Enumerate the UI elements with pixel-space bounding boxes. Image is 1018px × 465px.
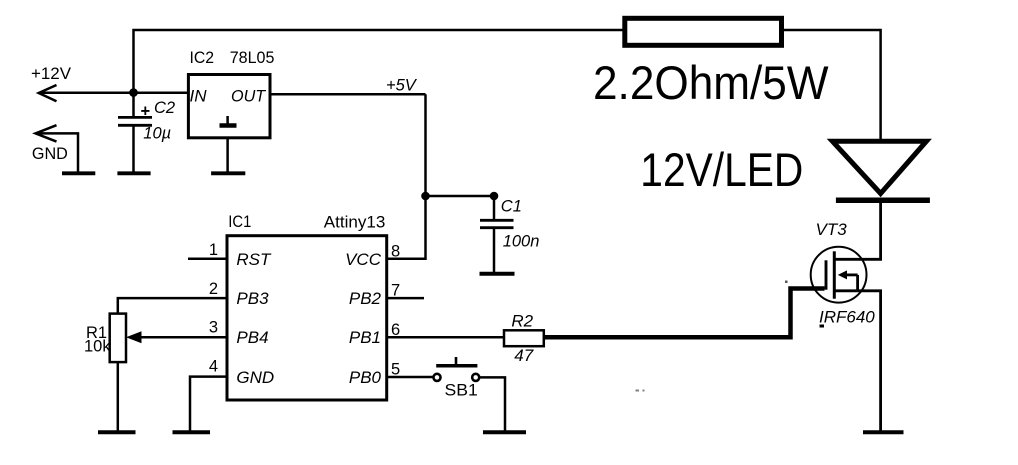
label GND pin [236, 368, 274, 387]
wire +5V down to VCC junction [424, 94, 427, 196]
svg-text:GND: GND [32, 145, 68, 163]
ground for C2 [117, 171, 150, 175]
label 12V/LED [640, 143, 803, 196]
node junction dot C1 [490, 192, 499, 201]
label 78L05 [230, 49, 275, 67]
resistor R2 body [504, 330, 544, 346]
svg-text:R2: R2 [511, 312, 533, 331]
label R1 [86, 324, 107, 342]
label C2 plus polarity [141, 102, 151, 120]
label 10u value [143, 125, 171, 143]
transistor VT3 source arrow [838, 270, 858, 290]
regulator IC2 body [188, 75, 270, 138]
label R2 [511, 312, 533, 331]
svg-text:2.2Ohm/5W: 2.2Ohm/5W [593, 56, 829, 109]
label Attiny13 [324, 213, 386, 231]
wire pin 7 PB2 stub [387, 297, 424, 300]
wire pin 3 PB4 to R1 wiper [138, 336, 227, 339]
wire pin 2 PB3 to R1 top [118, 298, 227, 314]
ground for SB1 [483, 430, 526, 434]
ground for IC2 [211, 171, 245, 175]
svg-text:8: 8 [391, 243, 400, 261]
label 100n value [503, 233, 540, 251]
transistor VT3 channel bar [833, 251, 836, 298]
svg-text:3: 3 [209, 319, 218, 337]
ground for GND arrow [62, 171, 95, 175]
R1 wiper arrowhead [126, 331, 142, 343]
label C2 [154, 99, 175, 117]
wire pin 6 PB1 to R2 [387, 336, 504, 339]
wire R1 bottom to ground [117, 362, 120, 431]
svg-text:PB0: PB0 [349, 368, 382, 387]
label IC2 [190, 49, 215, 67]
svg-text:IC1: IC1 [228, 213, 251, 231]
diode LED triangle [832, 141, 926, 193]
wire C1 bottom to ground [493, 228, 496, 273]
wire C2 bottom to ground [132, 125, 135, 172]
ground for pin 4 [173, 430, 211, 434]
label pin number 5 [391, 361, 400, 379]
wire C1 top lead [493, 196, 496, 220]
resistor 2.2Ohm/5W body [625, 18, 782, 45]
wire R2 to MOSFET gate thick [544, 289, 825, 338]
label 47 value [514, 346, 533, 365]
svg-text:10k: 10k [84, 338, 111, 356]
ground for R1 [98, 430, 136, 434]
label pin number 2 [209, 280, 218, 298]
node junction dot +12V/C2 [129, 88, 138, 97]
wire pin 4 GND to ground [190, 377, 227, 431]
svg-text:GND: GND [236, 368, 274, 387]
label PB3 [236, 289, 269, 308]
svg-text:VT3: VT3 [816, 220, 848, 239]
svg-text:PB3: PB3 [236, 289, 269, 308]
wire SB1 to ground [480, 377, 505, 430]
node junction dot +5V [421, 192, 430, 201]
switch SB1 actuator bar [436, 357, 477, 366]
label pin OUT [231, 88, 267, 106]
svg-text:1: 1 [209, 241, 218, 259]
label IC1 [228, 213, 251, 231]
svg-text:7: 7 [391, 282, 400, 300]
transistor VT3 gate bar [825, 260, 828, 289]
svg-text:OUT: OUT [231, 88, 267, 106]
svg-text:+5V: +5V [386, 77, 418, 95]
wire +12V rail to IC2 IN [39, 92, 189, 95]
switch SB1 right contact [472, 374, 479, 381]
svg-text:10µ: 10µ [143, 125, 171, 143]
stray faint dots [636, 281, 788, 392]
diode LED cathode bar [836, 198, 930, 204]
svg-text:+: + [141, 102, 151, 120]
svg-text:12V/LED: 12V/LED [640, 143, 803, 196]
wire junction down to VCC pin 8 [387, 196, 426, 259]
wire resistor to LED anode [781, 30, 881, 141]
svg-text:4: 4 [209, 357, 218, 375]
label PB0 [349, 368, 382, 387]
label C1 [501, 197, 522, 215]
label VCC [345, 250, 382, 269]
svg-text:100n: 100n [503, 233, 540, 251]
label +5V [386, 77, 418, 95]
label 10k value [84, 338, 111, 356]
svg-text:+12V: +12V [31, 65, 71, 83]
label pin number 1 [209, 241, 218, 259]
label pin number 7 [391, 282, 400, 300]
svg-text:SB1: SB1 [445, 382, 478, 400]
svg-text:Attiny13: Attiny13 [324, 213, 386, 231]
svg-text:PB2: PB2 [349, 289, 382, 308]
wire GND arrow to ground [36, 133, 79, 171]
svg-text:2: 2 [209, 280, 218, 298]
wire top rail from +12V junction to power resistor [134, 30, 625, 93]
wire junction to C2 top [132, 93, 135, 118]
svg-text:IN: IN [190, 87, 208, 106]
label pin number 3 [209, 319, 218, 337]
svg-text:47: 47 [514, 346, 533, 365]
switch SB1 left contact [433, 374, 440, 381]
svg-text:C1: C1 [501, 197, 522, 215]
op-amp IC1 ATtiny13 body [227, 236, 387, 400]
svg-text:6: 6 [391, 321, 400, 339]
svg-text:PB4: PB4 [236, 328, 268, 347]
wire IC2 to ground [226, 138, 229, 172]
wire LED cathode to MOSFET drain [834, 200, 880, 259]
svg-text:IRF640: IRF640 [819, 308, 875, 327]
label RST [236, 250, 272, 269]
label GND [32, 145, 68, 163]
label PB2 [349, 289, 382, 308]
label PB4 [236, 328, 268, 347]
label IRF640 [819, 308, 875, 327]
label pin IN [190, 87, 208, 106]
wire pin 1 RST stub [188, 258, 227, 261]
label pin number 6 [391, 321, 400, 339]
label PB1 [349, 328, 381, 347]
wire pin 5 PB0 to SB1 [387, 376, 433, 379]
ground for MOSFET source [863, 430, 904, 434]
transistor VT3 body circle [811, 247, 867, 303]
label pin number 4 [209, 357, 218, 375]
IC2 internal ground pin mark [220, 116, 237, 126]
capacitor C1 [480, 220, 514, 227]
label SB1 [445, 382, 478, 400]
stray mark under IRF640 [820, 325, 825, 328]
ground for C1 [480, 272, 515, 276]
label pin number 8 [391, 243, 400, 261]
label 2.2Ohm/5W [593, 56, 829, 109]
node +12V arrow terminal [39, 85, 57, 101]
svg-text:78L05: 78L05 [230, 49, 275, 67]
wire IC2 OUT to +5V corner [270, 93, 426, 96]
label +12V [31, 65, 71, 83]
resistor R1 potentiometer body [110, 314, 126, 363]
svg-text:5: 5 [391, 361, 400, 379]
svg-text:C2: C2 [154, 99, 175, 117]
svg-text:PB1: PB1 [349, 328, 381, 347]
label VT3 [816, 220, 848, 239]
svg-text:IC2: IC2 [190, 49, 215, 67]
svg-text:VCC: VCC [345, 250, 382, 269]
svg-text:RST: RST [236, 250, 272, 269]
capacitor C2 [118, 117, 152, 125]
wire MOSFET source to ground [834, 291, 880, 431]
node GND arrow terminal [36, 125, 57, 141]
wire junction to C1 [426, 195, 495, 198]
